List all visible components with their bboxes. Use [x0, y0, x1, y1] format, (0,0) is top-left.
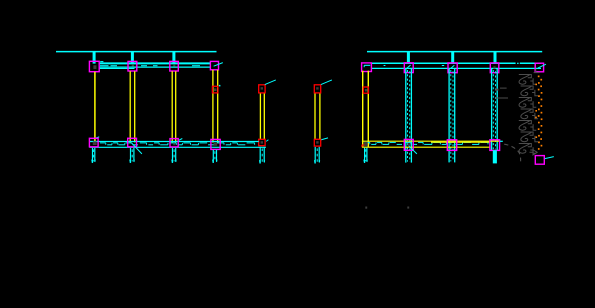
gray reference dash A [500, 87, 507, 89]
post above column R4 [494, 52, 497, 64]
upper beam (right) top chord [371, 63, 541, 64]
end plate (magenta) bottom right [535, 156, 544, 165]
base plate (magenta) at C2 [128, 138, 137, 147]
base plate (magenta) at R3 [447, 140, 456, 151]
bottom girder (right) hatch [364, 142, 488, 144]
red cap plate on C5 [259, 85, 265, 93]
leader at C2 base [132, 143, 142, 154]
joint plate (magenta) at R4 top [490, 63, 499, 73]
shrub end arrow [530, 150, 538, 155]
pile under C6 [314, 147, 319, 164]
orange dotted planting line [535, 76, 542, 150]
post above column C2 [131, 52, 134, 64]
post above column C3 [172, 52, 175, 64]
bottom girder (right) top chord [362, 140, 500, 142]
red corner mark at R1 base [362, 145, 365, 147]
pile under C4 [213, 150, 218, 163]
base plate (magenta) at R2 [404, 139, 413, 150]
tick at C3 base plate corner [179, 139, 182, 141]
roof edge line (left canopy) [56, 51, 217, 53]
base plate (magenta) at C1 [89, 138, 98, 147]
joint plate (magenta) at R3 top [448, 63, 457, 73]
pile under C5 [259, 147, 264, 164]
joint plate (magenta) at C4 top [210, 61, 218, 69]
leader tick at C4 top [214, 63, 223, 67]
tick right of C1 top plate [100, 61, 103, 63]
base plate (magenta) at R4 [490, 140, 500, 151]
gray step below end plate [534, 69, 540, 72]
bottom girder (right) bottom chord [362, 146, 490, 148]
upper beam (left) hidden-line dashes [100, 65, 200, 67]
pile under R4 (solid) [493, 150, 497, 163]
roof edge line (right canopy) [367, 51, 542, 53]
shrub scribbles (planting) [519, 75, 538, 154]
grade leader arc [504, 144, 520, 161]
leader tick at C5 cap [265, 80, 276, 85]
column R3 (cyan hatched) [449, 69, 455, 162]
stray dot A [365, 207, 367, 209]
pile under C3 [172, 148, 177, 163]
red bracket on R1 [363, 87, 368, 93]
second chord step (right girder) [431, 141, 490, 143]
cyan dot right of C4 bracket [219, 85, 221, 87]
column C1 (yellow) [94, 72, 96, 143]
bottom girder (left) bottom chord [89, 146, 266, 148]
post above column R3 [451, 52, 454, 64]
bottom girder (left) hatch [100, 143, 255, 145]
joint plate (magenta) at R2 top [404, 63, 413, 73]
joint plate (magenta) at right beam end [535, 63, 546, 72]
column R1 (yellow pair) [363, 71, 369, 147]
gray reference dash B [495, 97, 508, 99]
tick right of bottom right plate [545, 157, 554, 159]
column C4 (yellow pair) [213, 70, 218, 143]
tick at C5 base [266, 140, 268, 142]
red base plate on C6 [314, 139, 320, 146]
joint plate (magenta) at C1 top [89, 61, 99, 71]
pile under C2 [130, 148, 135, 163]
tick at C6 base [320, 138, 328, 140]
post above column R2 [407, 52, 410, 64]
upper beam (left) lower doubling line [99, 67, 135, 69]
column C6 (yellow pair) [315, 93, 320, 139]
corner fill at R1 base [364, 142, 368, 146]
gray tick at R4 [495, 89, 498, 91]
red bracket on C4 [212, 86, 218, 93]
joint plate (magenta) at R1 top [362, 63, 372, 72]
red base plate on C5 [259, 139, 265, 145]
upper beam (right) hidden-line dashes [384, 65, 445, 67]
upper beam (left) top chord [99, 62, 211, 64]
base plate (magenta) at C3 [170, 139, 178, 147]
leader tick at C6 cap [321, 80, 332, 85]
column R2 (cyan hatched) [406, 69, 412, 163]
tick right of girder end [500, 140, 503, 142]
red cap plate on C6 [314, 85, 320, 93]
base plate (magenta) at C4 [211, 139, 220, 149]
column C2 (yellow pair) [130, 71, 135, 142]
pile under C1 [92, 148, 96, 163]
column C5 (yellow pair) [260, 93, 264, 139]
stray dot B [407, 207, 409, 209]
column R4 (cyan hatched) [492, 69, 498, 150]
post above column C1 [93, 52, 96, 64]
joint plate (magenta) at C3 top [170, 61, 179, 71]
leader at R2 base [409, 146, 417, 154]
pile under R1 [364, 148, 368, 163]
upper beam (left) bottom chord [99, 66, 211, 68]
bottom girder (left) top chord [89, 141, 258, 143]
column C3 (yellow pair) [172, 71, 176, 142]
tick above C1 base plate [95, 137, 99, 139]
upper beam (right) bottom chord [371, 67, 541, 69]
joint plate (magenta) at C2 top [128, 61, 137, 71]
